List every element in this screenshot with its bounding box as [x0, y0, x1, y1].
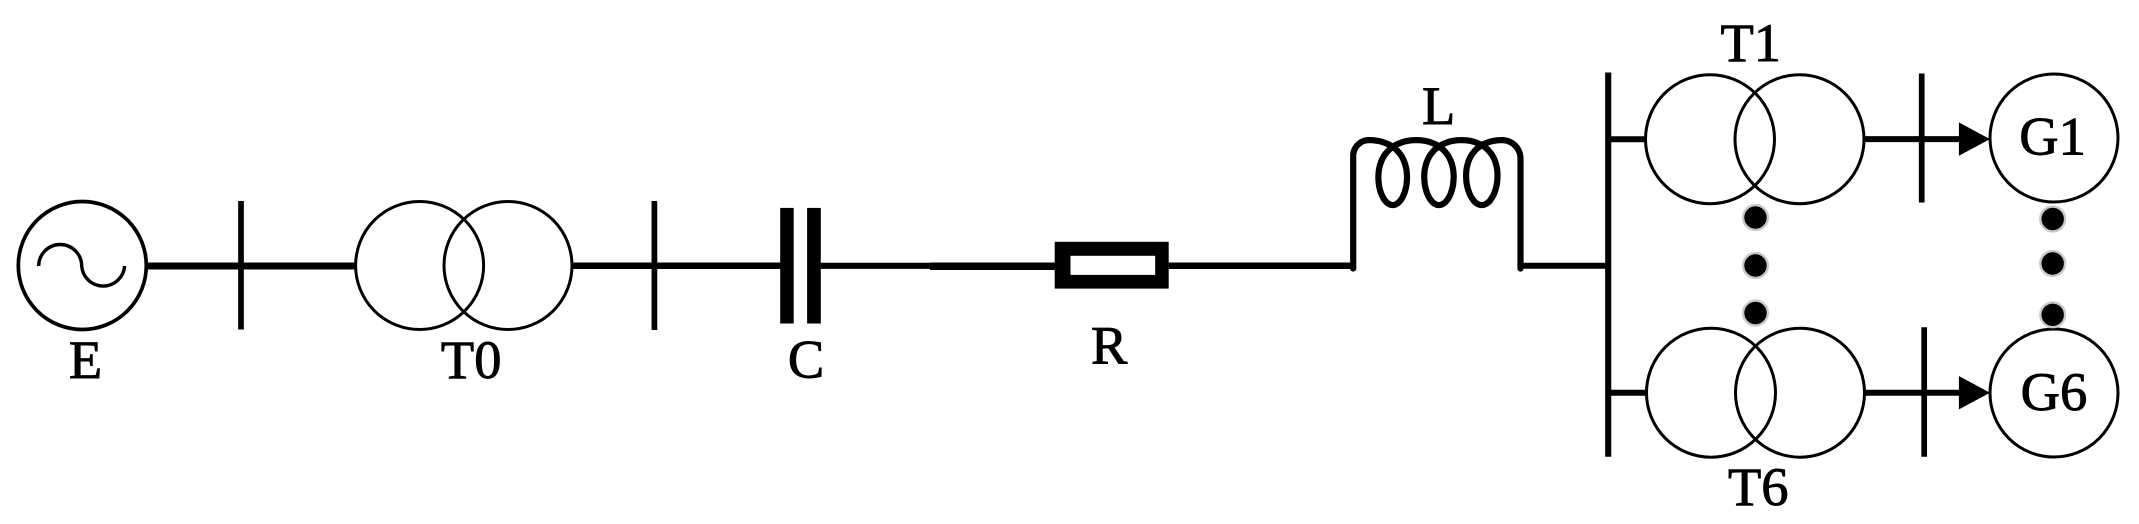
wire E to T0	[146, 263, 357, 270]
svg-text:T0: T0	[441, 329, 502, 390]
wire busbar to T1	[1608, 136, 1647, 142]
transformer T6 circle 1	[1647, 328, 1776, 457]
busbar tick after T1	[1919, 74, 1925, 203]
transformer T0 circle 1	[356, 202, 484, 330]
wire resistor to inductor	[1169, 263, 1354, 270]
busbar B (tall vertical)	[1605, 73, 1611, 457]
transformer T0 circle 2	[444, 202, 572, 330]
ellipsis dots between T1 and T6	[1743, 205, 1768, 325]
svg-text:T1: T1	[1721, 12, 1782, 73]
svg-text:L: L	[1422, 75, 1455, 136]
capacitor C left plate	[780, 208, 794, 324]
wire capacitor to resistor	[821, 263, 935, 269]
busbar tick after T6	[1921, 327, 1927, 457]
svg-text:E: E	[69, 329, 102, 390]
arrowhead to G1	[1959, 122, 1990, 155]
svg-text:R: R	[1091, 315, 1128, 376]
busbar tick 1	[238, 201, 244, 330]
svg-text:G1: G1	[2019, 106, 2086, 167]
wire T1 to arrow	[1863, 136, 1960, 142]
svg-text:C: C	[788, 329, 824, 390]
wire busbar to T6	[1608, 390, 1648, 396]
inductor L coil	[1353, 140, 1520, 268]
transformer T1 circle 1	[1646, 75, 1775, 204]
source E sine symbol	[39, 245, 125, 287]
arrowhead to G6	[1959, 376, 1990, 409]
capacitor C right plate	[807, 208, 821, 324]
transformer T1 circle 2	[1735, 75, 1864, 204]
svg-text:T6: T6	[1728, 456, 1789, 517]
generator G1 circle	[1990, 74, 2118, 202]
svg-text:G6: G6	[2021, 361, 2088, 422]
busbar tick 2	[652, 201, 658, 330]
source E circle	[18, 202, 146, 330]
wire T6 to arrow	[1865, 390, 1960, 396]
generator G6 circle	[1990, 329, 2118, 457]
transformer T6 circle 2	[1736, 328, 1865, 457]
resistor R body	[1055, 242, 1169, 289]
wire inductor to busbar	[1520, 263, 1608, 269]
ellipsis dots between G1 and G6	[2040, 207, 2065, 328]
wire T0 to capacitor	[572, 263, 781, 270]
